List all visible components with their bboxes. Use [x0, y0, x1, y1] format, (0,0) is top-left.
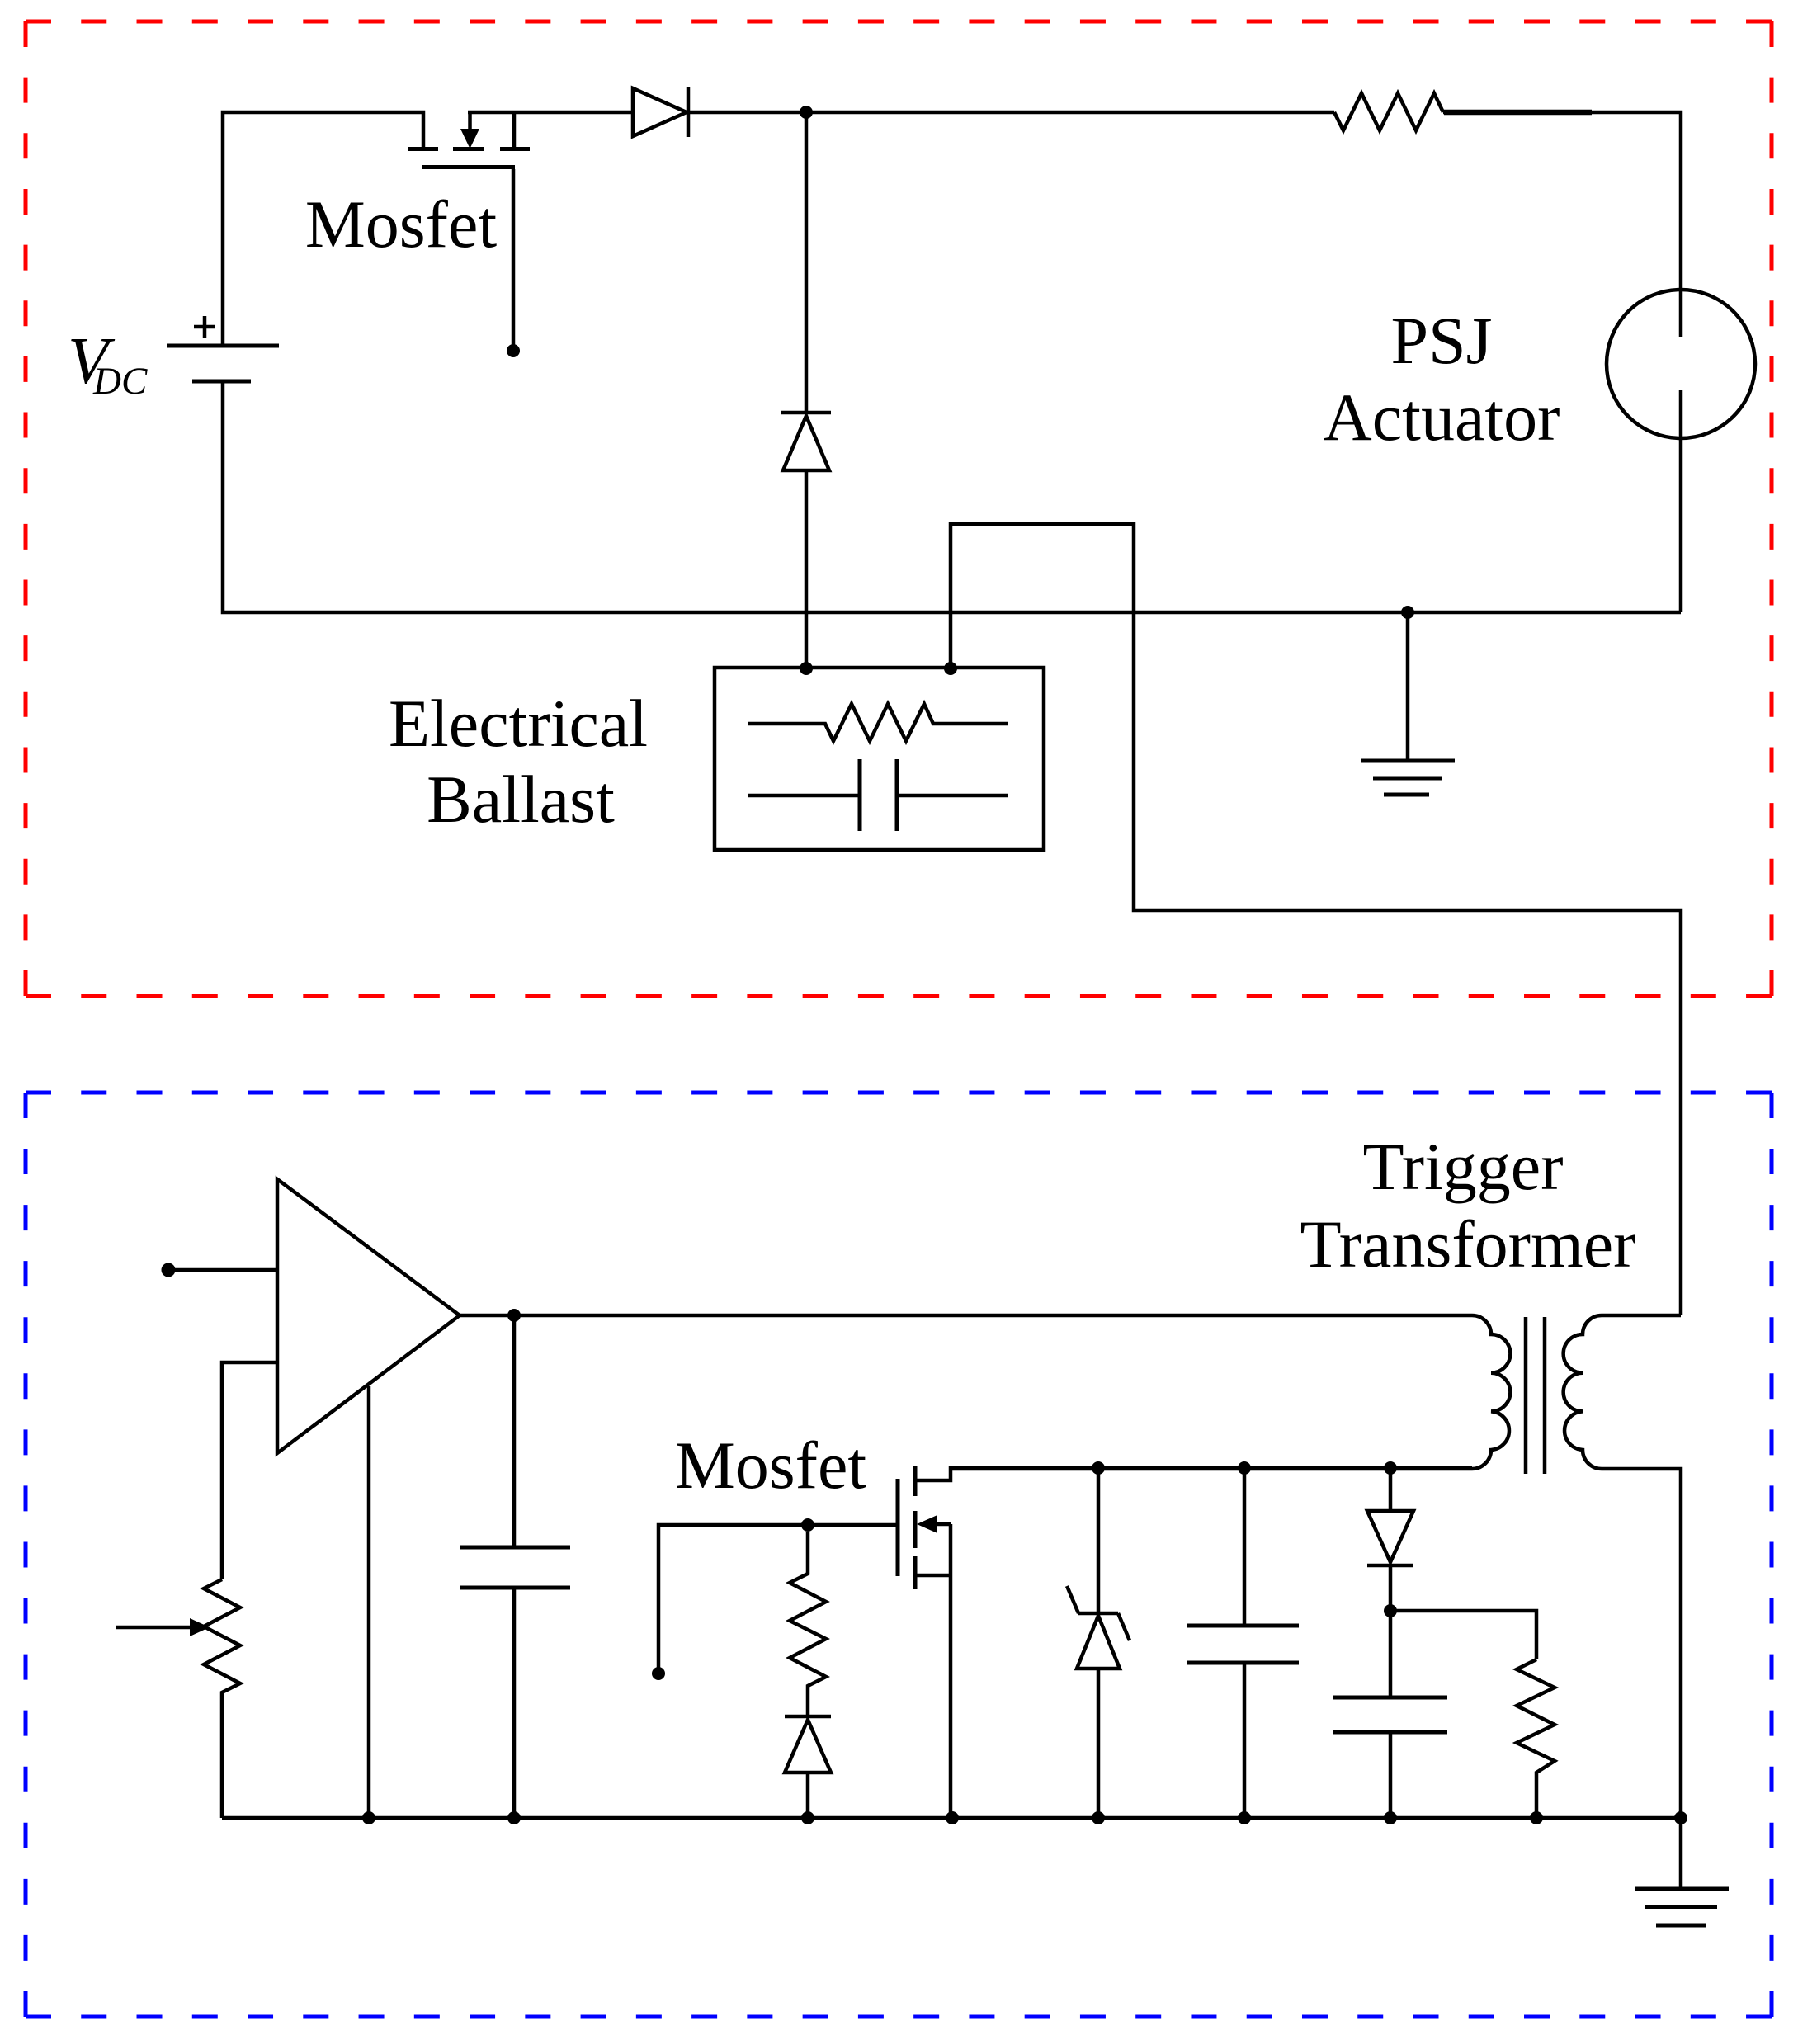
svg-text:DC: DC	[92, 360, 148, 403]
svg-text:Mosfet: Mosfet	[305, 186, 498, 262]
svg-text:Transformer: Transformer	[1300, 1206, 1636, 1282]
svg-text:PSJ: PSJ	[1390, 303, 1492, 378]
svg-text:Actuator: Actuator	[1324, 380, 1560, 455]
svg-text:Mosfet: Mosfet	[675, 1428, 867, 1503]
svg-text:Ballast: Ballast	[427, 762, 615, 837]
svg-text:Electrical: Electrical	[389, 686, 648, 761]
svg-text:Trigger: Trigger	[1363, 1129, 1564, 1204]
